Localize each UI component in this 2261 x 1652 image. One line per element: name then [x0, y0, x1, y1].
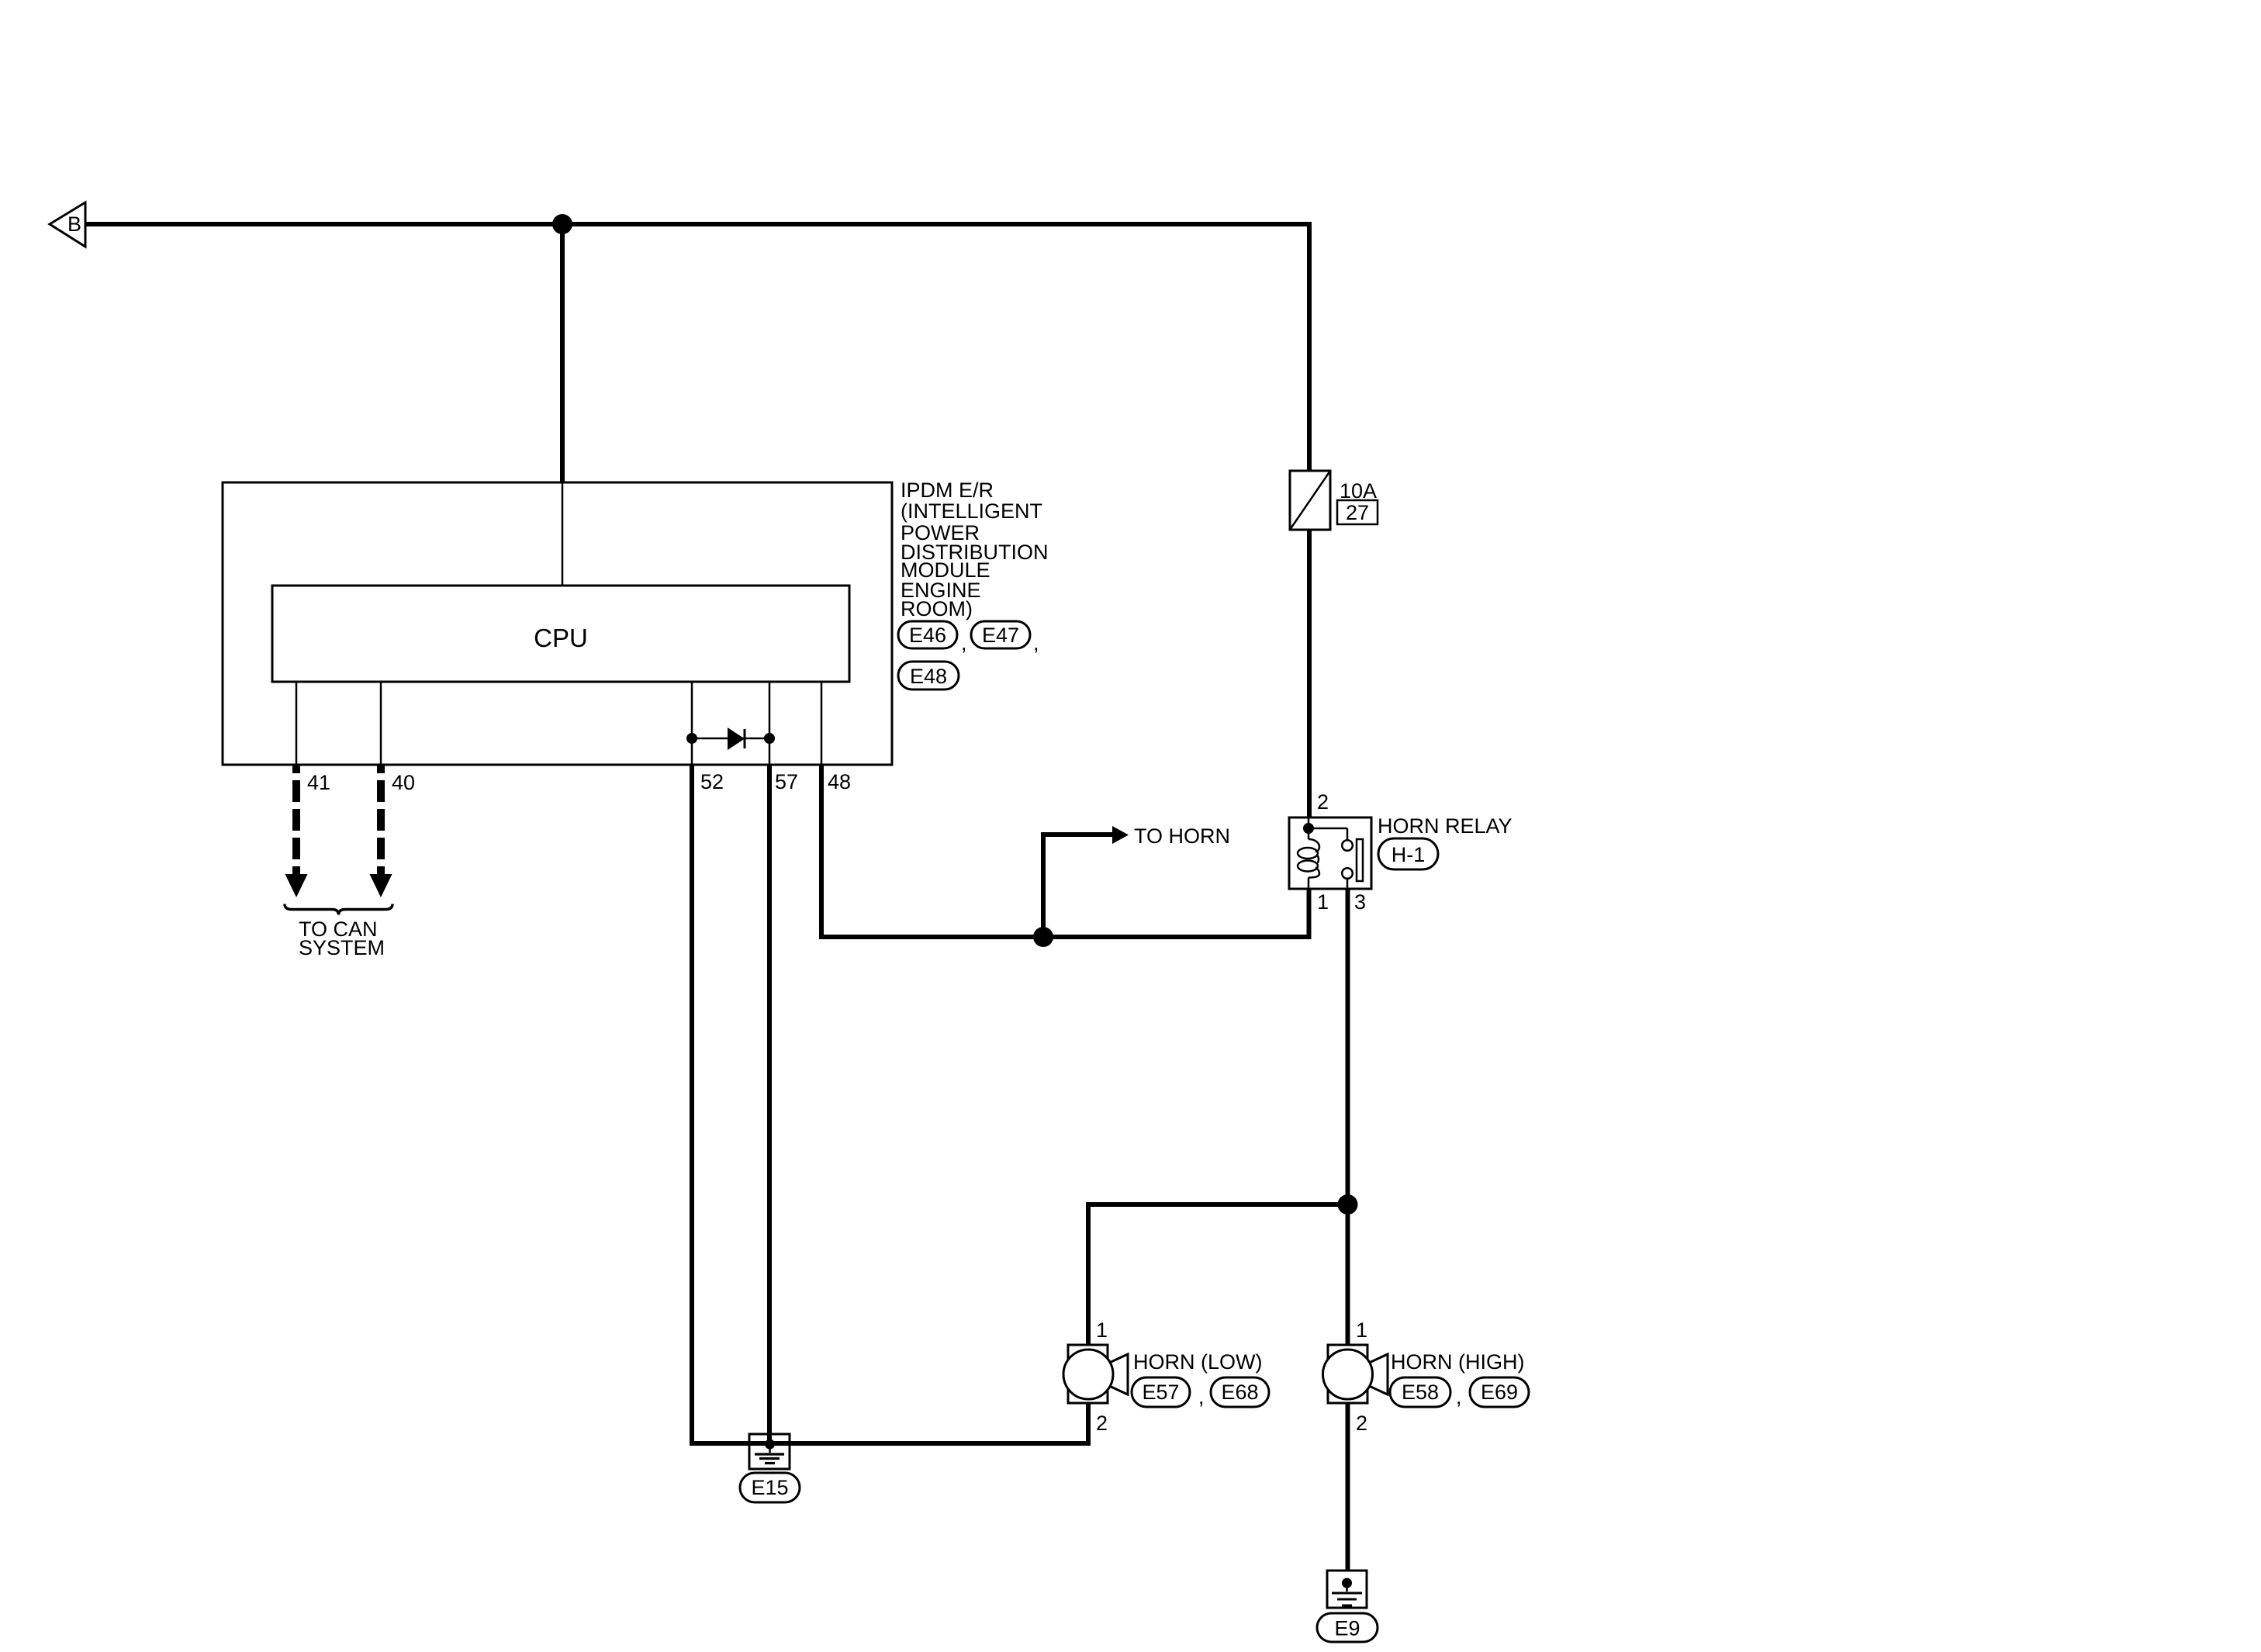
svg-text:2: 2: [1356, 1412, 1367, 1435]
svg-text:IPDM E/R: IPDM E/R: [901, 479, 994, 502]
svg-text:E15: E15: [751, 1476, 788, 1499]
svg-text:SYSTEM: SYSTEM: [299, 936, 385, 959]
svg-text:E57: E57: [1142, 1381, 1179, 1404]
svg-text:40: 40: [392, 771, 415, 794]
svg-text:41: 41: [307, 771, 330, 794]
svg-text:3: 3: [1354, 890, 1366, 914]
svg-text:HORN (HIGH): HORN (HIGH): [1391, 1350, 1524, 1374]
svg-text:10A: 10A: [1340, 479, 1377, 503]
svg-text:,: ,: [1456, 1385, 1462, 1408]
svg-text:1: 1: [1096, 1318, 1108, 1342]
svg-text:E68: E68: [1221, 1381, 1258, 1404]
svg-text:E58: E58: [1402, 1381, 1439, 1404]
svg-text:2: 2: [1096, 1412, 1108, 1435]
svg-text:,: ,: [1198, 1385, 1205, 1408]
svg-text:,: ,: [961, 631, 967, 655]
svg-text:48: 48: [828, 770, 851, 793]
svg-text:ROOM): ROOM): [901, 597, 973, 620]
svg-text:,: ,: [1033, 631, 1039, 655]
svg-text:2: 2: [1317, 790, 1329, 814]
svg-text:E69: E69: [1481, 1381, 1518, 1404]
svg-text:B: B: [67, 213, 81, 236]
svg-text:H-1: H-1: [1392, 843, 1426, 866]
svg-text:27: 27: [1346, 501, 1369, 524]
svg-text:E46: E46: [909, 624, 946, 647]
svg-text:57: 57: [775, 770, 798, 793]
svg-text:HORN (LOW): HORN (LOW): [1133, 1350, 1262, 1374]
svg-text:HORN RELAY: HORN RELAY: [1378, 814, 1513, 838]
svg-text:E48: E48: [910, 665, 947, 688]
svg-text:1: 1: [1356, 1318, 1367, 1342]
svg-text:TO HORN: TO HORN: [1134, 824, 1230, 848]
svg-text:1: 1: [1317, 890, 1329, 914]
svg-text:52: 52: [700, 770, 724, 793]
svg-text:E47: E47: [982, 624, 1019, 647]
svg-text:CPU: CPU: [534, 624, 588, 652]
svg-text:(INTELLIGENT: (INTELLIGENT: [901, 499, 1042, 523]
svg-text:E9: E9: [1334, 1617, 1360, 1640]
